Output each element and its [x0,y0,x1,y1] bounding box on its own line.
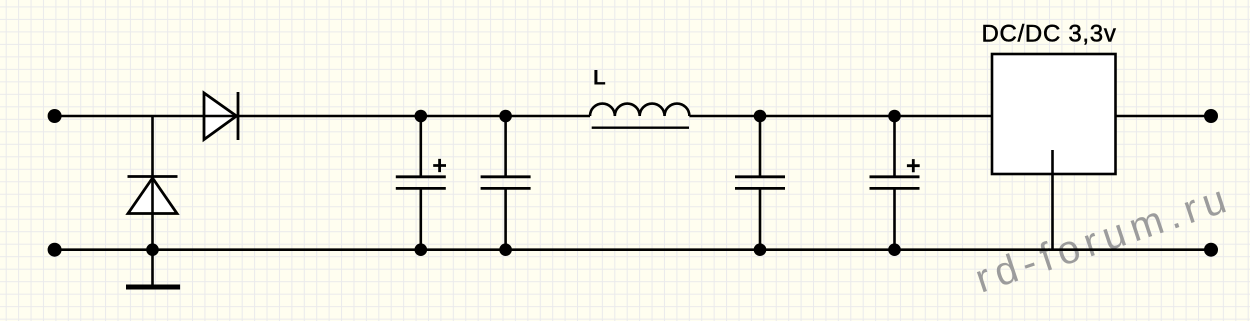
svg-text:L: L [593,67,606,90]
svg-text:DC/DC 3,3v: DC/DC 3,3v [982,20,1117,47]
